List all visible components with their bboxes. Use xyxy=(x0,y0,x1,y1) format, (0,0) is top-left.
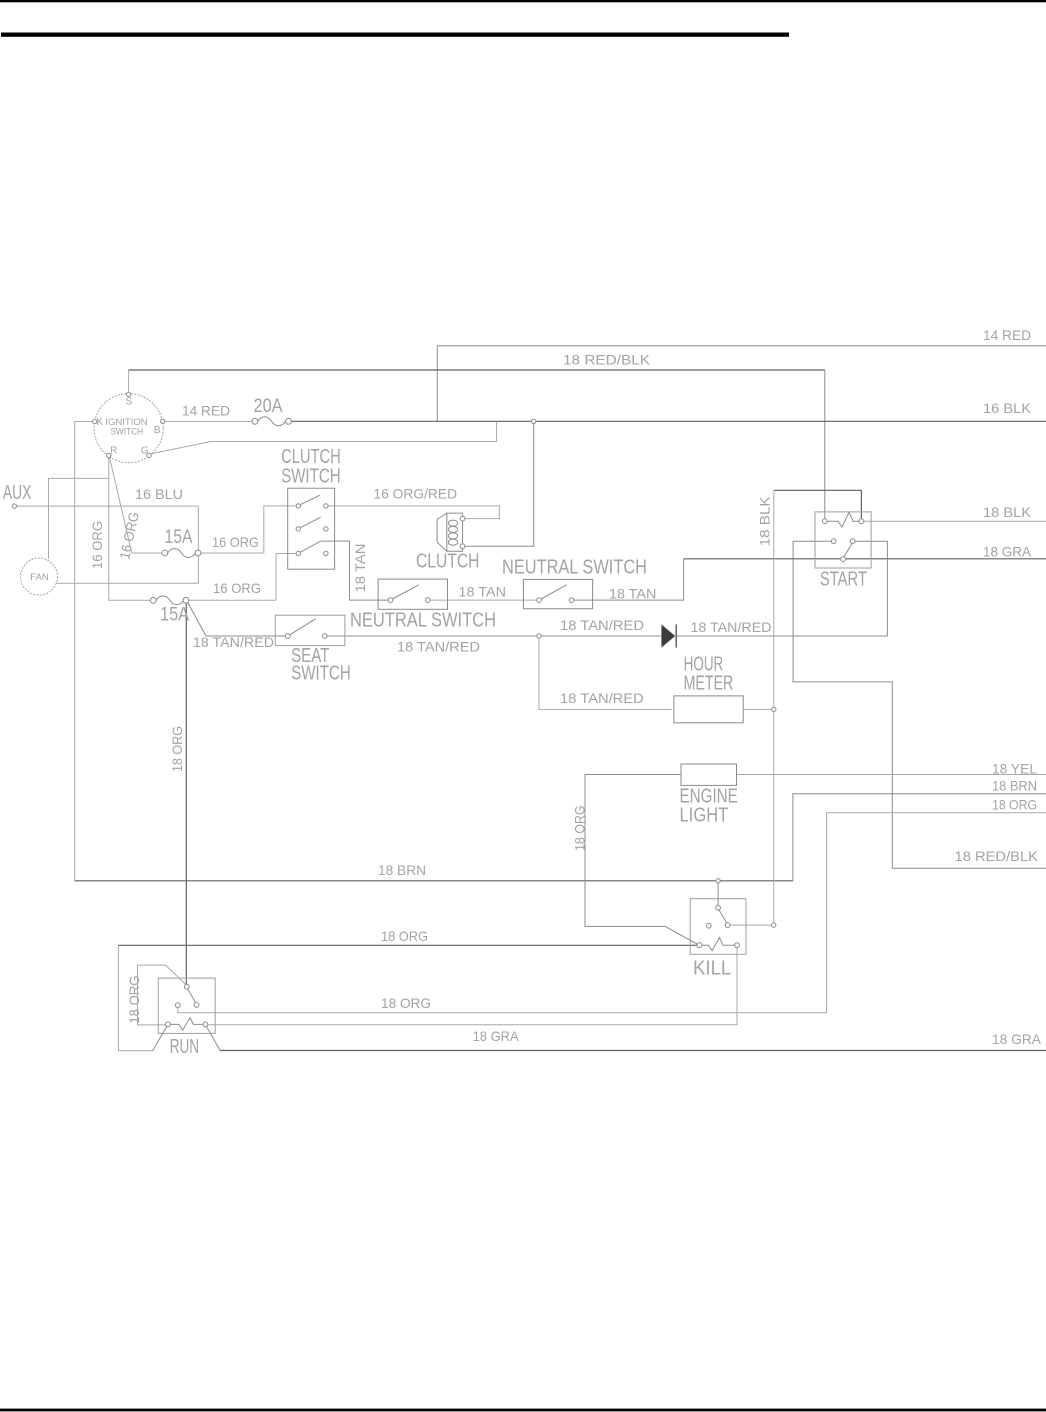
wire FAN feed xyxy=(56,582,198,584)
svg-text:14 RED: 14 RED xyxy=(983,327,1031,343)
FAN motor xyxy=(21,558,58,595)
seat switch box xyxy=(275,615,345,645)
svg-text:RUN: RUN xyxy=(170,1036,199,1058)
svg-text:18 GRA: 18 GRA xyxy=(992,1031,1042,1047)
svg-text:18 TAN/RED: 18 TAN/RED xyxy=(560,617,644,633)
svg-text:CLUTCH: CLUTCH xyxy=(416,551,480,573)
svg-text:18 TAN/RED: 18 TAN/RED xyxy=(560,690,644,706)
wire KILL to RUN lower link xyxy=(208,947,737,1024)
svg-text:KILL: KILL xyxy=(693,958,731,980)
fuse 15A #2 xyxy=(150,596,189,605)
wire ignition K down xyxy=(75,422,93,881)
wire 18 ORG long vertical to RUN xyxy=(185,603,187,984)
svg-text:NEUTRAL SWITCH: NEUTRAL SWITCH xyxy=(502,557,647,579)
svg-text:FAN: FAN xyxy=(30,572,49,583)
wire 16 BLK xyxy=(291,420,1046,422)
clutch connector xyxy=(437,513,465,551)
svg-text:16 ORG: 16 ORG xyxy=(212,534,259,550)
AUX terminal xyxy=(12,504,16,508)
wire RUN inner loop xyxy=(138,965,186,1025)
KILL breaker element xyxy=(697,938,739,951)
svg-text:16 ORG: 16 ORG xyxy=(89,521,105,569)
wire RUN right diagonal xyxy=(206,1026,220,1050)
wire 18 TAN/RED triangle to START column xyxy=(676,635,887,637)
svg-text:18 RED/BLK: 18 RED/BLK xyxy=(955,848,1039,864)
wire 18 ORG run middle loop xyxy=(178,813,1046,1013)
svg-text:NEUTRAL SWITCH: NEUTRAL SWITCH xyxy=(350,609,496,631)
wire 18 BRN riser to right edge xyxy=(793,794,1046,881)
ignition pin K xyxy=(93,419,97,423)
fuse 15A #1 xyxy=(162,549,201,558)
junction 18 TAN/RED / hour meter feed xyxy=(537,634,541,638)
clutch switch row2 xyxy=(296,517,328,531)
wire fuse2 to clutch switch row3 xyxy=(188,554,296,601)
svg-text:14 RED: 14 RED xyxy=(182,403,230,419)
neutral switch 2 box xyxy=(523,579,592,608)
svg-text:18 GRA: 18 GRA xyxy=(473,1028,520,1044)
wire START coil right riser xyxy=(774,490,862,519)
KILL switch box xyxy=(690,899,746,955)
neutral switch 1 contacts xyxy=(388,585,430,603)
wire START contact to 18 TAN/RED column xyxy=(855,541,887,636)
svg-text:18 BLK: 18 BLK xyxy=(757,496,773,547)
top heading bar xyxy=(1,33,789,37)
svg-text:18 ORG: 18 ORG xyxy=(126,976,142,1024)
RUN breaker element xyxy=(166,1018,208,1031)
clutch switch row1 xyxy=(296,495,328,508)
START relay contact xyxy=(831,539,855,562)
top border rule xyxy=(0,0,1046,2)
svg-text:18 GRA: 18 GRA xyxy=(983,544,1032,560)
svg-text:16 BLK: 16 BLK xyxy=(983,400,1032,416)
wire R diagonal to fuse 15A #1 xyxy=(110,458,163,553)
neutral switch 2 contacts xyxy=(537,585,574,603)
seat switch contacts xyxy=(285,619,327,638)
clutch switch label xyxy=(281,446,341,488)
wire 18 TAN/RED to hour meter xyxy=(539,638,672,709)
wire 18 ORG to KILL breaker xyxy=(118,944,697,946)
svg-text:18 TAN/RED: 18 TAN/RED xyxy=(397,639,480,655)
ignition pin R xyxy=(107,453,111,457)
svg-text:18 TAN/RED: 18 TAN/RED xyxy=(691,619,772,635)
svg-text:18 YEL: 18 YEL xyxy=(992,761,1037,777)
svg-text:18 BLK: 18 BLK xyxy=(983,504,1032,520)
ignition pin S xyxy=(126,392,130,396)
junction 18 BRN / KILL feed xyxy=(716,879,720,883)
connector triangle xyxy=(661,625,676,648)
svg-text:15A: 15A xyxy=(165,527,193,548)
svg-text:18 TAN: 18 TAN xyxy=(352,544,368,593)
wire hour meter output xyxy=(743,708,771,710)
neutral switch 1 box xyxy=(378,579,447,609)
junction 16 BLK / clutch feed xyxy=(532,419,536,423)
svg-text:18 BRN: 18 BRN xyxy=(378,862,426,878)
ignition switch labels xyxy=(96,397,161,457)
ignition pin G xyxy=(147,453,151,457)
wire to KILL centre pole xyxy=(730,924,772,926)
clutch switch row3 xyxy=(296,541,328,556)
clutch switch box xyxy=(288,488,335,569)
svg-text:AUX: AUX xyxy=(3,482,31,504)
wire 18 GRA bottom to right edge xyxy=(220,1050,1046,1052)
wire 18 TAN neutral switch 2 jog up xyxy=(574,559,684,600)
wire 18 TAN/RED fuse2 diagonal to seat switch xyxy=(188,602,286,636)
ignition pin B xyxy=(161,419,165,423)
junction coil net / KILL pole xyxy=(772,923,776,927)
wire engine light left 18 ORG branch to KILL xyxy=(585,775,698,945)
wire coil net long vertical xyxy=(773,490,775,925)
svg-text:16 ORG: 16 ORG xyxy=(213,580,261,596)
wire START pole path to 18 RED/BLK right edge xyxy=(793,541,1046,868)
svg-text:SWITCH: SWITCH xyxy=(110,427,143,438)
hour meter box xyxy=(674,696,743,723)
wire 18 BLK to right edge xyxy=(864,520,1046,522)
wire ignition G jog to 16 BLK xyxy=(151,422,496,454)
wire 18 ORG RUN outer loop xyxy=(118,945,152,1051)
seat switch label xyxy=(291,645,351,685)
svg-text:18 BRN: 18 BRN xyxy=(992,778,1037,794)
svg-text:18 RED/BLK: 18 RED/BLK xyxy=(563,352,651,368)
wire 16 BLK junction to clutch connector xyxy=(465,421,534,546)
svg-text:20A: 20A xyxy=(254,396,283,417)
svg-text:K: K xyxy=(96,417,103,428)
bottom border rule xyxy=(0,1409,1046,1412)
wire R branch to FAN xyxy=(49,478,109,558)
svg-text:18 TAN: 18 TAN xyxy=(609,586,656,602)
wire RUN left diagonal xyxy=(153,1026,167,1051)
svg-text:15A: 15A xyxy=(160,605,189,626)
RUN switch contact xyxy=(175,984,199,1007)
wire ignition B to fuse 20A xyxy=(165,420,252,422)
svg-text:METER: METER xyxy=(684,673,734,695)
svg-text:18 ORG: 18 ORG xyxy=(572,805,588,851)
junction hour meter output xyxy=(772,707,776,711)
svg-text:18 TAN: 18 TAN xyxy=(459,584,507,600)
svg-text:SWITCH: SWITCH xyxy=(281,466,341,488)
wire 18 YEL to right edge xyxy=(737,774,1046,776)
svg-text:LIGHT: LIGHT xyxy=(680,805,729,827)
fuse 20A xyxy=(252,417,291,426)
wire 18 RED/BLK vertical drop xyxy=(824,370,826,519)
svg-text:18 ORG: 18 ORG xyxy=(381,928,428,944)
wire 16 ORG fuse1 to clutch switch row1 xyxy=(200,506,296,553)
wire KILL top feed xyxy=(717,883,719,906)
svg-text:18 ORG: 18 ORG xyxy=(381,995,431,1011)
svg-text:18 ORG: 18 ORG xyxy=(169,726,185,772)
svg-text:18 TAN/RED: 18 TAN/RED xyxy=(193,634,274,650)
svg-text:18 ORG: 18 ORG xyxy=(992,797,1037,813)
ignition switch body xyxy=(94,394,163,463)
wire ignition R down to fuse 15A #2 xyxy=(109,458,151,601)
START relay box xyxy=(815,512,871,568)
KILL switch contact xyxy=(706,905,730,928)
wire 16 ORG/RED clutch row1 to connector xyxy=(328,506,499,519)
engine light label xyxy=(680,786,738,827)
RUN switch box xyxy=(158,978,215,1033)
wire 18 BRN main xyxy=(75,880,793,882)
wire 18 TAN between neutral switches xyxy=(430,599,537,601)
svg-text:SWITCH: SWITCH xyxy=(291,663,351,685)
svg-text:16 BLU: 16 BLU xyxy=(135,486,183,502)
START relay coil xyxy=(822,512,863,527)
svg-text:B: B xyxy=(154,425,161,436)
wire ignition S stub xyxy=(128,370,130,392)
wire 18 TAN/RED seat switch to triangle xyxy=(327,635,661,637)
wire 14 RED xyxy=(437,346,1046,422)
svg-text:S: S xyxy=(126,397,133,408)
svg-text:16 ORG/RED: 16 ORG/RED xyxy=(373,485,457,501)
wire AUX 16 BLU xyxy=(17,506,199,583)
svg-text:START: START xyxy=(820,568,867,590)
wire 18 RED/BLK (ignition S to START coil) xyxy=(129,369,825,371)
wire 18 TAN clutch row3 to neutral switch 1 xyxy=(321,541,389,600)
hour meter label xyxy=(684,653,734,694)
wire 18 GRA upper to right edge xyxy=(684,558,1046,560)
engine light box xyxy=(681,764,737,785)
